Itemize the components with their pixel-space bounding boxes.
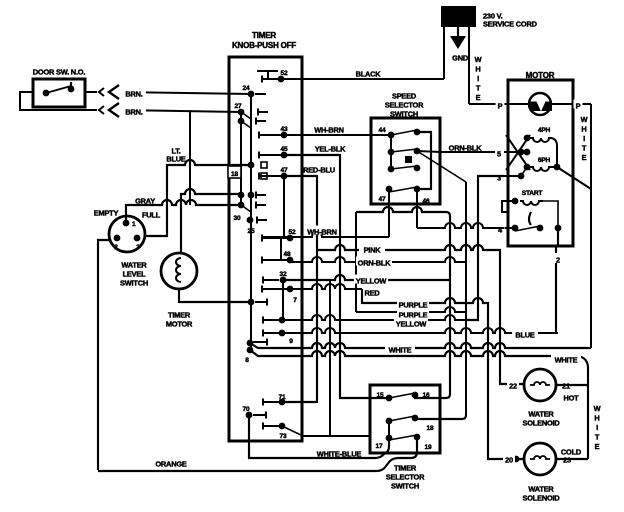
svg-text:P: P bbox=[576, 102, 581, 111]
timer left inner vertical bbox=[240, 112, 242, 205]
motor centrifugal switch bbox=[512, 212, 562, 231]
timer terminal below 27 bbox=[238, 118, 251, 128]
wire BLACK row bbox=[281, 78, 444, 80]
svg-text:RED-BLU: RED-BLU bbox=[303, 166, 335, 175]
motor main winding 4PH bbox=[524, 135, 557, 167]
cold solenoid coil marks bbox=[530, 456, 550, 459]
timer box bbox=[229, 57, 302, 441]
connector chevrons upper BRN bbox=[99, 85, 119, 99]
timer selector switch box bbox=[370, 385, 440, 453]
svg-text:WATER: WATER bbox=[528, 410, 554, 419]
svg-text:25: 25 bbox=[248, 228, 255, 235]
wire YELLOW row 280 bbox=[283, 275, 450, 280]
WLS terminal 3 bbox=[134, 235, 141, 252]
svg-text:FULL: FULL bbox=[142, 211, 161, 220]
timer terminal 71 bbox=[279, 394, 286, 405]
wire ORN-BLK speed selector to motor 5 bbox=[417, 151, 495, 152]
timer contact bar row 195 bbox=[256, 192, 266, 199]
label BLACK bbox=[356, 70, 382, 79]
wire WHITE row 356 bbox=[250, 350, 588, 459]
label WATER LEVEL SWITCH bbox=[120, 261, 148, 288]
label WH-BRN 43 bbox=[314, 126, 344, 135]
svg-text:EMPTY: EMPTY bbox=[94, 209, 119, 218]
svg-text:19: 19 bbox=[425, 444, 432, 451]
label 20 bbox=[503, 454, 515, 465]
water level switch circle bbox=[109, 216, 145, 252]
wire start winding left bracket bbox=[502, 201, 515, 212]
wire cold solenoid right bbox=[556, 458, 588, 460]
svg-text:T: T bbox=[476, 84, 481, 93]
label WHITE vertical service bbox=[475, 55, 482, 102]
label PURPLE 312 bbox=[397, 309, 429, 320]
svg-text:PINK: PINK bbox=[364, 246, 382, 255]
label 4 bbox=[496, 224, 505, 235]
svg-text:46: 46 bbox=[423, 198, 430, 205]
svg-text:W: W bbox=[475, 55, 482, 64]
svg-text:H: H bbox=[594, 414, 599, 423]
svg-text:44: 44 bbox=[379, 127, 386, 134]
timer contact bar 48 bbox=[262, 257, 287, 264]
wire 19 down bbox=[399, 437, 417, 458]
timer terminal 27 bbox=[235, 103, 251, 119]
label 19 bbox=[425, 444, 432, 451]
wire motor P right bbox=[551, 100, 591, 111]
timer contact bar 8 bbox=[253, 339, 267, 346]
timer terminal row 205 bbox=[238, 202, 251, 212]
motor protector contacts bbox=[529, 102, 552, 112]
label BRN lower bbox=[122, 106, 146, 117]
label 230 V. SERVICE CORD bbox=[483, 12, 538, 29]
svg-text:DOOR SW. N.O.: DOOR SW. N.O. bbox=[33, 68, 86, 77]
cold water solenoid circle bbox=[524, 443, 556, 475]
svg-text:I: I bbox=[596, 423, 598, 432]
svg-text:SWITCH: SWITCH bbox=[120, 279, 148, 288]
svg-text:LEVEL: LEVEL bbox=[123, 270, 147, 279]
svg-text:4PH: 4PH bbox=[538, 127, 551, 134]
svg-text:H: H bbox=[475, 65, 480, 74]
svg-text:I: I bbox=[477, 74, 479, 83]
wire LT.BLUE from WLS-3 bbox=[144, 160, 251, 236]
label TIMER KNOB-PUSH OFF bbox=[232, 31, 296, 50]
timer terminal 73 bbox=[279, 423, 287, 441]
svg-text:2: 2 bbox=[556, 256, 560, 265]
motor terminal 5 wire bbox=[504, 149, 530, 156]
svg-text:WHITE: WHITE bbox=[555, 356, 578, 365]
svg-text:8: 8 bbox=[245, 357, 249, 364]
wire start winding right to switch bbox=[543, 201, 558, 228]
svg-text:YELLOW: YELLOW bbox=[356, 277, 387, 286]
svg-text:MOTOR: MOTOR bbox=[526, 71, 555, 80]
wire BLUE row bbox=[282, 328, 558, 333]
speed selector contact blade 44 bbox=[391, 129, 420, 136]
label PINK bbox=[359, 244, 385, 255]
wire gray row from WLS-1 bbox=[126, 200, 241, 224]
label WHITE 348 bbox=[385, 344, 415, 355]
svg-text:20: 20 bbox=[505, 456, 513, 465]
svg-text:BRN.: BRN. bbox=[125, 90, 142, 99]
label YELLOW 320 bbox=[394, 318, 428, 329]
timer contact bar 32 bbox=[263, 277, 279, 324]
svg-text:7: 7 bbox=[293, 297, 297, 304]
svg-text:15: 15 bbox=[377, 392, 384, 399]
wire WH-BRN row 43 to 44 bbox=[284, 134, 391, 136]
svg-text:47: 47 bbox=[379, 196, 386, 203]
svg-text:BRN.: BRN. bbox=[125, 108, 142, 117]
wire 16 to purple net bbox=[415, 394, 450, 398]
wire white right vertical bbox=[590, 104, 592, 348]
timer terminal 9 bbox=[279, 330, 294, 346]
svg-text:YEL-BLK: YEL-BLK bbox=[315, 145, 346, 154]
label 23 bbox=[561, 454, 573, 465]
wire YEL-BLK row bbox=[284, 155, 389, 398]
svg-text:GND.: GND. bbox=[452, 54, 470, 63]
timer contact bar 52 lower bbox=[262, 235, 287, 242]
svg-text:22: 22 bbox=[509, 382, 517, 391]
timer terminal 8 junction bbox=[245, 340, 253, 365]
timer terminal 70 bbox=[243, 406, 266, 418]
wire RED-BLU row bbox=[282, 176, 317, 402]
timer push-off contact bar bbox=[257, 71, 278, 79]
label WHITE vertical solenoid bbox=[594, 404, 601, 451]
timer selector terminal 17 bbox=[376, 435, 393, 451]
timer contact bar 30 bbox=[257, 217, 267, 224]
connector chevrons lower BRN bbox=[99, 103, 119, 117]
svg-text:RED: RED bbox=[364, 289, 380, 298]
label MOTOR bbox=[526, 71, 555, 80]
svg-text:SPEED: SPEED bbox=[392, 92, 417, 101]
svg-text:TIMER: TIMER bbox=[252, 31, 276, 40]
label YEL-BLK bbox=[315, 145, 346, 154]
wire purple row 212 bbox=[356, 207, 450, 394]
svg-text:TIMER: TIMER bbox=[168, 311, 191, 320]
timer contact bar row 205 bbox=[256, 202, 266, 209]
label TIMER SELECTOR SWITCH bbox=[386, 464, 425, 491]
label WH-BRN 52 bbox=[305, 226, 339, 237]
wire timer 73 row bbox=[282, 426, 370, 436]
wire timer motor bottom bbox=[179, 289, 251, 302]
timer motor junction dot bbox=[248, 299, 267, 306]
svg-text:PURPLE: PURPLE bbox=[399, 301, 428, 310]
timer terminal 47 bbox=[281, 167, 288, 179]
timer terminal row 320 bbox=[279, 317, 286, 324]
label 4PH bbox=[538, 127, 551, 134]
label LT. BLUE bbox=[166, 147, 186, 164]
wire speed selector diagonal bbox=[417, 151, 466, 182]
speed selector left link vertical bbox=[390, 135, 392, 169]
label 22 bbox=[507, 380, 519, 391]
timer terminal 32 bbox=[280, 271, 287, 320]
timer motor circle bbox=[161, 253, 197, 289]
wire motor 3 row bbox=[466, 176, 504, 320]
label 16 bbox=[423, 392, 430, 399]
timer selector blade bottom bbox=[389, 434, 420, 441]
ground symbol bbox=[450, 27, 466, 49]
wire timer 70 to selector 17 bbox=[249, 415, 384, 458]
door switch box DOOR SW. N.O. bbox=[33, 68, 86, 107]
svg-text:ORANGE: ORANGE bbox=[155, 460, 187, 469]
wire BRN lower row to timer bbox=[20, 110, 241, 112]
wire PURPLE row 303 bbox=[362, 289, 524, 462]
svg-text:ORN-BLK: ORN-BLK bbox=[449, 144, 483, 153]
wire WLS-2 to orange run bbox=[98, 240, 110, 470]
wire motor 4 row bbox=[417, 223, 504, 228]
speed selector center square bbox=[405, 156, 412, 163]
speed selector contact blade bottom bbox=[389, 186, 420, 193]
timer terminal 52 top bbox=[278, 70, 288, 82]
speed selector contact pair 2 bbox=[388, 148, 421, 156]
speed selector terminal 47 bbox=[379, 186, 393, 204]
wire door row drop bbox=[189, 110, 191, 205]
label 21 bbox=[560, 380, 572, 391]
wire white solenoid vertical bbox=[587, 368, 589, 459]
label RED bbox=[363, 287, 381, 298]
label SPEED SELECTOR SWITCH bbox=[385, 92, 424, 119]
wire motor 2 down to blue bbox=[556, 228, 558, 333]
label HOT bbox=[563, 394, 579, 403]
timer terminal 45 bbox=[281, 146, 288, 158]
wire purple drop 356 bbox=[355, 212, 357, 312]
svg-text:SELECTOR: SELECTOR bbox=[385, 101, 424, 110]
wire speed selector 47 drop bbox=[388, 189, 390, 237]
label GND. bbox=[452, 54, 470, 63]
timer contact square 18 bbox=[261, 162, 267, 179]
timer contact bar 45 bbox=[259, 152, 281, 159]
svg-text:T: T bbox=[582, 144, 587, 153]
svg-text:W: W bbox=[581, 115, 588, 124]
svg-text:MOTOR: MOTOR bbox=[166, 320, 193, 329]
svg-text:SOLENOID: SOLENOID bbox=[523, 419, 561, 428]
wire plug right pin down (white) bbox=[468, 27, 470, 104]
timer terminal 48 bbox=[284, 251, 294, 263]
speed selector switch box bbox=[371, 118, 440, 204]
label WHITE 356 right bbox=[551, 354, 581, 365]
wire purple net vertical 466 bbox=[465, 182, 467, 415]
svg-text:SWITCH: SWITCH bbox=[391, 482, 419, 491]
svg-text:3: 3 bbox=[136, 244, 140, 251]
speed selector terminal 44 bbox=[379, 127, 395, 138]
timer contact bar 24 bbox=[255, 93, 266, 95]
service cord plug bbox=[441, 6, 476, 27]
label WATER SOLENOID hot bbox=[523, 410, 561, 428]
timer contact bar 47 bbox=[259, 173, 281, 180]
wire BRN upper row to timer bbox=[85, 92, 251, 94]
svg-text:W: W bbox=[594, 404, 601, 413]
svg-text:SOLENOID: SOLENOID bbox=[523, 494, 561, 503]
label 3 bbox=[495, 172, 504, 183]
label ORN-BLK 48 bbox=[356, 257, 392, 268]
wire 18 row bbox=[415, 415, 466, 419]
svg-text:START: START bbox=[522, 190, 543, 197]
motor second winding 6PH bbox=[524, 164, 561, 171]
wire motor P left bbox=[469, 100, 529, 111]
timer selector terminal 15 bbox=[377, 392, 393, 401]
wire WHITE row 348 bbox=[250, 343, 591, 348]
svg-text:73: 73 bbox=[280, 433, 287, 440]
svg-text:E: E bbox=[476, 93, 481, 102]
label PURPLE 303 bbox=[397, 299, 429, 310]
wire motor terminal 4 inside bbox=[504, 227, 515, 229]
timer terminal 52 lower bbox=[287, 229, 296, 241]
hot water solenoid circle bbox=[524, 369, 556, 401]
timer terminal pair row 195 bbox=[238, 192, 255, 199]
timer selector blade top bbox=[389, 392, 418, 399]
timer contact bar 52 top bbox=[262, 76, 278, 83]
timer contact bar 43 bbox=[259, 132, 281, 139]
svg-text:WATER: WATER bbox=[528, 485, 554, 494]
svg-text:2: 2 bbox=[114, 244, 118, 251]
wire RED row bbox=[290, 284, 362, 289]
motor box bbox=[508, 80, 573, 246]
label YELLOW 280 bbox=[354, 275, 388, 286]
svg-text:24: 24 bbox=[243, 85, 250, 92]
label RED-BLU bbox=[303, 166, 335, 175]
label EMPTY bbox=[94, 209, 119, 218]
wire WH-BRN row 52 bbox=[262, 232, 389, 237]
svg-text:1: 1 bbox=[132, 221, 136, 228]
svg-text:SWITCH: SWITCH bbox=[390, 110, 418, 119]
timer contact bar 27 bbox=[258, 109, 268, 116]
svg-text:P: P bbox=[498, 102, 503, 111]
svg-text:18: 18 bbox=[231, 171, 238, 178]
label 5 bbox=[495, 148, 504, 159]
motor protector circle bbox=[529, 93, 551, 115]
wire motor windings to white bbox=[557, 167, 591, 189]
label WHITE-BLUE bbox=[317, 450, 362, 459]
svg-text:23: 23 bbox=[563, 456, 571, 465]
wire 17 link bbox=[384, 440, 389, 454]
svg-text:KNOB-PUSH OFF: KNOB-PUSH OFF bbox=[232, 41, 296, 50]
label 6PH bbox=[538, 157, 551, 164]
svg-text:ORN-BLK: ORN-BLK bbox=[358, 259, 392, 268]
svg-text:E: E bbox=[582, 153, 587, 162]
speed selector terminal 46 bbox=[423, 198, 430, 205]
speed selector contact pair 3 bbox=[388, 165, 421, 173]
timer internal bus vertical bbox=[250, 93, 252, 350]
svg-text:I: I bbox=[583, 134, 585, 143]
wire timer motor top row bbox=[181, 189, 241, 253]
timer selector link mid to 17 bbox=[388, 421, 390, 436]
label GRAY bbox=[135, 197, 155, 206]
label timer 25 bbox=[248, 228, 255, 235]
timer contact bar 73 bbox=[263, 423, 279, 430]
timer terminal 30 bbox=[234, 215, 254, 223]
label WATER SOLENOID cold bbox=[523, 485, 561, 503]
svg-text:21: 21 bbox=[562, 382, 570, 391]
timer contact bar below 27 bbox=[256, 118, 266, 125]
svg-text:SERVICE CORD: SERVICE CORD bbox=[483, 20, 538, 29]
timer contact bar 7 bbox=[262, 286, 287, 293]
speed selector inner right link bbox=[417, 132, 431, 189]
svg-text:T: T bbox=[595, 433, 600, 442]
label WHITE vertical motor right bbox=[581, 115, 588, 162]
wire YELLOW drop 330 bbox=[329, 280, 331, 436]
svg-text:BLUE: BLUE bbox=[166, 155, 186, 164]
svg-text:WH-BRN: WH-BRN bbox=[314, 126, 344, 135]
wire YELLOW row 320 bbox=[282, 315, 478, 320]
svg-text:9: 9 bbox=[289, 338, 293, 345]
svg-text:30: 30 bbox=[234, 215, 241, 222]
svg-text:H: H bbox=[581, 125, 586, 134]
timer motor coil symbol bbox=[176, 258, 181, 282]
label TIMER MOTOR bbox=[166, 311, 193, 329]
wire PURPLE row 312 bbox=[356, 307, 466, 312]
wire door switch left loop bbox=[20, 92, 33, 110]
svg-text:WATER: WATER bbox=[121, 261, 147, 270]
wire ORN-BLK row 48 bbox=[290, 257, 466, 262]
svg-text:YELLOW: YELLOW bbox=[396, 320, 427, 329]
timer contact bar 71 bbox=[263, 399, 279, 406]
svg-text:18: 18 bbox=[427, 425, 434, 432]
timer terminal 18 bbox=[228, 162, 254, 179]
timer terminal 24 bbox=[241, 82, 255, 97]
svg-text:HOT: HOT bbox=[563, 394, 579, 403]
svg-text:TIMER: TIMER bbox=[394, 464, 417, 473]
wire PINK row bbox=[317, 245, 524, 384]
timer contact bar 9 bbox=[263, 330, 279, 337]
svg-text:6PH: 6PH bbox=[538, 157, 551, 164]
timer terminal 7 bbox=[287, 286, 298, 305]
timer selector contact mid bbox=[386, 415, 419, 425]
svg-text:5: 5 bbox=[497, 150, 501, 159]
label 2 bbox=[554, 253, 563, 265]
svg-text:WHITE-BLUE: WHITE-BLUE bbox=[317, 450, 362, 459]
wire speed selector 46 drop bbox=[416, 189, 418, 228]
motor speed X linkage bbox=[506, 135, 530, 170]
label FULL bbox=[142, 211, 161, 220]
motor start winding bbox=[512, 198, 543, 205]
svg-text:BLACK: BLACK bbox=[356, 70, 382, 79]
svg-text:WH-BRN: WH-BRN bbox=[307, 228, 337, 237]
svg-text:COLD: COLD bbox=[561, 448, 582, 457]
label ORN-BLK motor bbox=[449, 144, 483, 153]
door switch contacts and blade bbox=[43, 82, 75, 96]
WLS terminal 1 bbox=[123, 220, 136, 229]
label COLD bbox=[559, 446, 583, 457]
wire timer sel 18 vertical 450 bbox=[0, 0, 1, 1]
label ORANGE bbox=[155, 460, 187, 469]
label 18 bbox=[427, 425, 434, 432]
label START bbox=[522, 190, 543, 197]
timer terminal 43 bbox=[281, 126, 288, 138]
wire plug left pin to BLACK corner bbox=[443, 27, 445, 79]
timer stub 47 to 52 bbox=[281, 176, 284, 260]
svg-text:SELECTOR: SELECTOR bbox=[386, 473, 425, 482]
hot solenoid coil marks bbox=[530, 382, 550, 385]
wire ORANGE bottom run bbox=[98, 458, 399, 471]
svg-text:WHITE: WHITE bbox=[389, 346, 412, 355]
label BLUE bbox=[512, 329, 538, 340]
svg-text:E: E bbox=[595, 442, 600, 451]
WLS terminal 2 bbox=[114, 235, 121, 252]
svg-text:GRAY: GRAY bbox=[135, 197, 155, 206]
motor terminal 3 wire inside bbox=[504, 167, 527, 179]
wire hot solenoid right bbox=[556, 384, 588, 386]
label BRN upper bbox=[122, 88, 146, 99]
svg-text:17: 17 bbox=[376, 443, 383, 450]
svg-text:BLUE: BLUE bbox=[515, 331, 535, 340]
